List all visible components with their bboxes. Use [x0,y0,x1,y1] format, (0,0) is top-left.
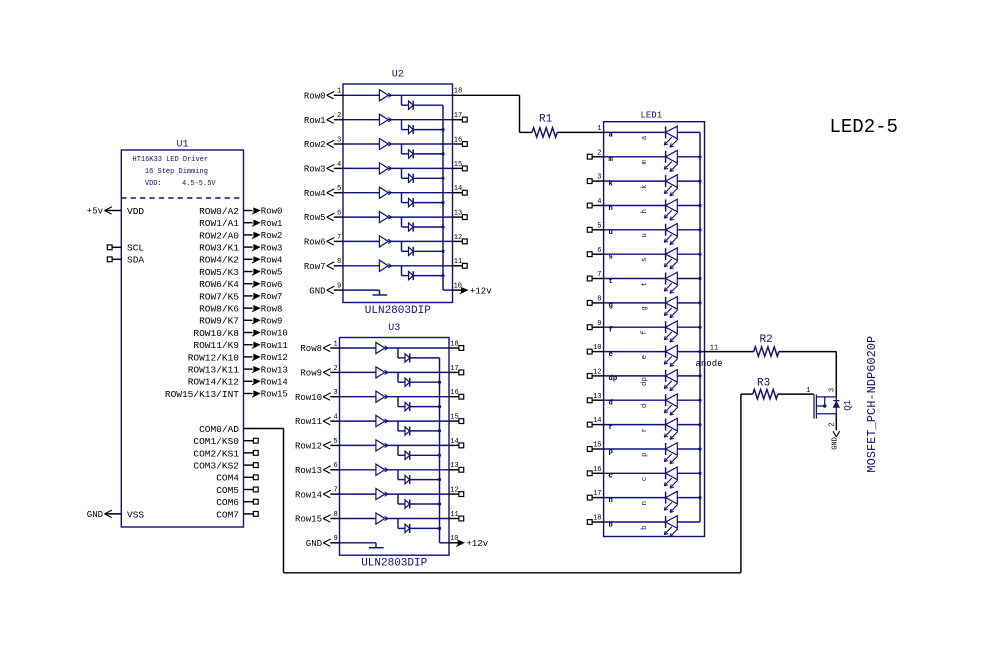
svg-text:12: 12 [454,234,462,242]
junction diode rail U2 ch7 [441,250,444,253]
svg-text:Row6: Row6 [304,238,326,248]
pin ROW3/K1 of U1 [199,243,252,254]
svg-text:VSS: VSS [127,509,144,520]
buffer channel 4 of U3 [340,415,450,426]
LED display LED1 box [604,111,705,537]
wire LED1 pin11 to R2 [705,351,754,353]
buffer channel 8 of U3 [340,513,450,524]
svg-text:ROW4/K2: ROW4/K2 [199,255,239,266]
node Row15 [252,390,288,400]
svg-text:Row14: Row14 [295,490,322,500]
resistor R2 [754,334,779,356]
node Row8 [252,304,282,314]
svg-text:f: f [641,331,649,335]
junction diode rail U3 ch2 [438,381,441,384]
pin ROW12/K10 of U1 [188,352,253,363]
pin 16 of U3 [449,389,464,399]
svg-text:17: 17 [454,112,462,120]
pin 15 of U3 [449,413,464,423]
svg-text:ROW12/K10: ROW12/K10 [188,352,240,363]
node Row4 [252,256,282,266]
svg-text:VDD: VDD [127,206,144,217]
junction anode rail row 9 [698,326,701,329]
pin 7 of U2, node Row6 [304,234,343,248]
pin SCL of U1 [107,243,144,254]
ground symbol inside U2 [343,290,387,295]
svg-text:ROW5/K3: ROW5/K3 [199,267,239,278]
junction anode rail row 7 [698,277,701,280]
pin 11 of U2 [453,258,468,268]
pin 18 of U2 [454,88,462,96]
pin 10 +12v of U2 [453,283,493,297]
buffer channel 7 of U3 [340,489,450,500]
node Row13 [252,365,288,375]
pin 6 of U2, node Row5 [304,210,343,224]
svg-text:16: 16 [450,389,458,397]
pin 4 of U2, node Row3 [304,161,343,175]
junction diode rail U3 ch7 [438,502,441,505]
ground GND at Q1 source [832,431,840,450]
junction anode rail row 12 [698,374,701,377]
svg-text:b: b [641,525,649,529]
svg-text:ROW0/A2: ROW0/A2 [199,206,239,217]
svg-text:e: e [641,355,649,359]
node Row3 [252,243,282,253]
svg-text:Row12: Row12 [295,442,322,452]
diode D3 of U2 [402,144,444,158]
svg-text:Row4: Row4 [261,256,283,266]
svg-text:2: 2 [337,112,341,120]
LED segment a (pin 1) of LED1 [597,125,700,147]
diode common rail of U3 [440,358,450,543]
label Q1 [843,400,853,411]
svg-text:R3: R3 [757,378,770,390]
svg-text:15: 15 [450,413,458,421]
svg-text:3: 3 [829,388,837,392]
junction anode rail row 17 [698,496,701,499]
buffer channel 2 of U2 [343,114,453,125]
diode D3 of U3 [398,397,440,411]
buffer channel 6 of U3 [340,464,450,475]
junction anode rail row 10 [698,350,701,353]
svg-text:15: 15 [454,161,462,169]
U1 dashed separator [121,197,243,199]
buffer channel 1 of U2 [343,90,453,101]
LED segment f (pin 9) of LED1 [587,320,700,342]
diode D6 of U2 [402,217,444,231]
buffer channel 1 of U3 [340,342,450,353]
pin ROW11/K9 of U1 [193,340,252,351]
svg-text:Row5: Row5 [304,213,326,223]
svg-text:COM7: COM7 [216,509,239,520]
svg-text:d: d [641,404,649,408]
LED segment s (pin 6) of LED1 [587,247,700,269]
buffer channel 8 of U2 [343,260,453,271]
buffer channel 3 of U2 [343,138,453,149]
pin ROW13/K11 of U1 [188,365,253,376]
svg-text:Row14: Row14 [261,378,288,388]
junction diode rail U3 ch5 [438,454,441,457]
svg-text:c: c [641,477,649,481]
junction anode rail row 14 [698,423,701,426]
svg-text:Row4: Row4 [304,189,326,199]
svg-text:ULN2803DIP: ULN2803DIP [361,558,427,570]
pin ROW5/K3 of U1 [199,267,252,278]
pin 11 of U3 [449,511,464,521]
pin COM0/AD of U1 [199,424,239,435]
value label ULN2803DIP of U3 [361,558,427,570]
diode D1 of U2 [402,95,444,109]
svg-text:Row1: Row1 [304,116,326,126]
svg-text:Row12: Row12 [261,353,288,363]
node Row1 [252,219,282,229]
junction diode rail U2 ch8 [441,274,444,277]
wire COM0/AD net [244,394,753,573]
pin VSS of U1 [127,509,144,520]
junction diode rail U3 ch6 [438,478,441,481]
svg-text:Row5: Row5 [261,268,283,278]
value label HT16K33 LED Driver [133,156,217,188]
transistor Q1 MOSFET P-channel [814,394,839,418]
diode D4 of U2 [402,168,444,182]
svg-text:Row1: Row1 [261,219,283,229]
junction anode rail row 4 [698,204,701,207]
junction anode rail row 5 [698,228,701,231]
pin 12 of U2 [453,234,468,244]
node Row14 [252,378,288,388]
svg-text:Row9: Row9 [300,369,322,379]
svg-text:Row8: Row8 [300,344,322,354]
diode D7 of U3 [398,494,440,508]
junction anode rail row 3 [698,180,701,183]
svg-text:16: 16 [454,136,462,144]
svg-text:3: 3 [333,389,337,397]
svg-text:4: 4 [337,161,341,169]
pin 17 of U2 [453,112,468,122]
svg-text:18: 18 [454,88,462,96]
pin 5 of U3, node Row12 [295,438,340,452]
pin 1 gate label [806,387,810,395]
pin COM5 of U1 [216,485,258,496]
svg-text:LED2-5: LED2-5 [830,116,898,138]
svg-text:Row11: Row11 [295,417,322,427]
pin COM1/KS0 of U1 [193,436,258,447]
svg-text:ROW7/K5: ROW7/K5 [199,291,239,302]
junction anode rail row 16 [698,472,701,475]
pin 8 of U2, node Row7 [304,258,343,272]
junction diode rail U2 ch3 [441,152,444,155]
pin 11 anode of LED1 [696,344,723,369]
wire Q1 source to GND [835,414,837,431]
svg-text:VDD:: VDD: [145,180,162,188]
svg-text:h: h [641,209,649,213]
svg-text:COM0/AD: COM0/AD [199,424,239,435]
pin 13 of U3 [449,462,464,472]
buffer channel 6 of U2 [343,212,453,223]
diode D1 of U3 [398,348,440,362]
pin ROW7/K5 of U1 [199,291,252,302]
ground GND at VSS [87,510,112,520]
wire R2 to Q1 drain [779,352,836,397]
LED segment c (pin 16) of LED1 [587,466,700,488]
svg-text:COM2/KS1: COM2/KS1 [193,448,239,459]
svg-text:Row2: Row2 [261,231,283,241]
pin 10 +12v of U3 [449,535,489,549]
svg-text:r: r [641,428,649,432]
pin SDA of U1 [107,255,144,266]
svg-text:k: k [641,184,649,189]
pin 2 of U2, node Row1 [304,112,343,126]
svg-text:16 Step Dimming: 16 Step Dimming [145,168,208,176]
junction anode rail row 6 [698,253,701,256]
diode D4 of U3 [398,421,440,435]
svg-text:ROW9/K7: ROW9/K7 [199,316,239,327]
LED segment e (pin 10) of LED1 [587,344,700,366]
node Row2 [252,231,282,241]
diode D6 of U3 [398,470,440,484]
svg-text:Row13: Row13 [295,466,322,476]
svg-text:Row11: Row11 [261,341,288,351]
pin ROW0/A2 of U1 [199,206,252,217]
junction diode rail U2 ch6 [441,225,444,228]
svg-text:g: g [641,306,649,310]
pin ROW9/K7 of U1 [199,316,252,327]
svg-text:SDA: SDA [127,255,144,266]
svg-text:2: 2 [333,365,337,373]
buffer channel 3 of U3 [340,391,450,402]
pin ROW4/K2 of U1 [199,255,252,266]
svg-text:6: 6 [337,210,341,218]
pin ROW6/K4 of U1 [199,279,252,290]
wire R3 to Q1 gate [778,393,814,395]
LED segment dp (pin 12) of LED1 [587,369,700,391]
LED segment g (pin 8) of LED1 [587,296,700,318]
pin COM2/KS1 of U1 [193,448,258,459]
pin 12 of U3 [449,487,464,497]
pin 13 of U2 [453,210,468,220]
pin ROW15/K13/INT of U1 [165,389,253,400]
svg-text:ROW14/K12: ROW14/K12 [188,377,240,388]
pin ROW10/K8 of U1 [193,328,252,339]
svg-text:9: 9 [337,283,341,291]
pin VDD of U1 [127,206,144,217]
svg-text:Row7: Row7 [304,262,326,272]
svg-text:U3: U3 [388,323,400,334]
value label ULN2803DIP of U2 [365,305,431,317]
svg-text:8: 8 [337,258,341,266]
svg-text:+12v: +12v [467,539,489,549]
junction diode rail U3 ch3 [438,405,441,408]
svg-text:1: 1 [806,387,810,395]
svg-text:anode: anode [696,359,723,369]
pin 1 of U3, node Row8 [300,340,339,354]
pin ROW1/A1 of U1 [199,218,252,229]
svg-text:p: p [641,452,649,456]
pin COM7 of U1 [216,509,258,520]
svg-text:18: 18 [450,340,458,348]
svg-text:COM5: COM5 [216,485,239,496]
LED segment p (pin 15) of LED1 [587,442,700,464]
svg-text:m: m [641,160,649,165]
node +5v [87,207,112,217]
LED segment d (pin 13) of LED1 [587,393,700,415]
svg-text:R2: R2 [760,334,773,346]
svg-text:Row10: Row10 [261,329,288,339]
op-amp U1 HT16K33 LED Driver [121,140,243,528]
pin 17 of U3 [449,365,464,375]
svg-text:+12v: +12v [470,286,492,296]
svg-text:SCL: SCL [127,243,144,254]
svg-text:ROW3/K1: ROW3/K1 [199,243,239,254]
svg-text:COM1/KS0: COM1/KS0 [193,436,239,447]
svg-text:7: 7 [337,234,341,242]
svg-text:Row3: Row3 [304,165,326,175]
svg-text:s: s [641,258,649,262]
svg-text:COM6: COM6 [216,497,239,508]
svg-text:10: 10 [454,283,462,291]
svg-text:Row7: Row7 [261,292,283,302]
LED segment t (pin 7) of LED1 [587,271,700,293]
svg-text:Row0: Row0 [261,207,283,217]
svg-text:4.5-5.5V: 4.5-5.5V [182,180,216,188]
pin 6 of U3, node Row13 [295,462,340,476]
svg-text:14: 14 [450,438,458,446]
pin 8 of U3, node Row15 [295,511,340,525]
resistor R1 [532,113,557,137]
pin ROW2/A0 of U1 [199,230,252,241]
pin ROW8/K6 of U1 [199,304,252,315]
svg-text:+5v: +5v [87,207,104,217]
LED segment h (pin 4) of LED1 [587,198,700,220]
pin 2 source label [829,422,837,426]
junction diode rail U2 ch5 [441,201,444,204]
junction diode rail U3 ch4 [438,429,441,432]
ground symbol inside U3 [340,543,384,548]
pin 9 GND of U3 [306,535,340,549]
svg-text:12: 12 [450,487,458,495]
svg-text:LED1: LED1 [641,111,663,121]
node Row7 [252,292,282,302]
wire GND to VSS [105,513,122,515]
svg-text:a: a [641,135,649,140]
node Row9 [252,317,282,327]
buffer channel 2 of U3 [340,367,450,378]
svg-text:U1: U1 [177,140,189,151]
svg-text:5: 5 [333,438,337,446]
pin 2 of U3, node Row9 [300,365,339,379]
diode D5 of U3 [398,445,440,459]
svg-text:COM4: COM4 [216,473,239,484]
svg-text:u: u [641,233,649,237]
buffer channel 7 of U2 [343,236,453,247]
svg-text:Row0: Row0 [304,92,326,102]
svg-text:Row8: Row8 [261,304,283,314]
svg-text:n: n [641,501,649,505]
junction anode rail row 15 [698,447,701,450]
svg-text:dp: dp [641,377,649,386]
buffer channel 5 of U3 [340,440,450,451]
svg-text:ULN2803DIP: ULN2803DIP [365,305,431,317]
svg-text:ROW1/A1: ROW1/A1 [199,218,239,229]
LED segment m (pin 2) of LED1 [587,149,700,171]
svg-text:11: 11 [450,511,458,519]
svg-text:1: 1 [333,340,337,348]
node Row5 [252,268,282,278]
resistor R3 [753,378,778,399]
svg-text:Row6: Row6 [261,280,283,290]
svg-text:MOSFET_PCH-NDP6020P: MOSFET_PCH-NDP6020P [865,336,879,473]
pin COM4 of U1 [216,473,258,484]
wire +5v to VDD [105,210,122,212]
svg-text:2: 2 [829,422,837,426]
pin COM6 of U1 [216,497,258,508]
svg-text:7: 7 [333,487,337,495]
diode D2 of U2 [402,120,444,134]
svg-text:6: 6 [333,462,337,470]
junction anode rail row 2 [698,155,701,158]
svg-text:Row9: Row9 [261,317,283,327]
diode D2 of U3 [398,372,440,386]
op-amp U2 ULN2803 box [343,70,453,303]
junction diode rail U3 ch8 [438,527,441,530]
diode D8 of U3 [398,519,440,533]
svg-text:14: 14 [454,185,462,193]
LED segment n (pin 17) of LED1 [587,490,700,512]
LED segment k (pin 3) of LED1 [587,174,700,196]
pin 3 of U2, node Row2 [304,136,343,150]
pin 3 of U3, node Row10 [295,389,340,403]
svg-text:ROW6/K4: ROW6/K4 [199,279,239,290]
svg-text:ROW2/A0: ROW2/A0 [199,230,239,241]
svg-text:13: 13 [450,462,458,470]
anode rail of LED1 [699,132,701,522]
wire U2 pin18 to R1 [453,95,533,132]
svg-text:HT16K33 LED Driver: HT16K33 LED Driver [133,156,209,164]
node Row10 [252,329,288,339]
svg-text:4: 4 [333,413,337,421]
diode common rail of U2 [443,105,453,290]
pin ROW14/K12 of U1 [188,377,253,388]
junction diode rail U2 ch4 [441,177,444,180]
svg-text:GND: GND [309,286,325,296]
node Row0 [252,207,282,217]
node Row11 [252,341,288,351]
buffer channel 5 of U2 [343,187,453,198]
svg-text:3: 3 [337,136,341,144]
svg-text:GND: GND [832,437,840,450]
LED segment b (pin 18) of LED1 [587,515,700,537]
junction anode rail row 13 [698,399,701,402]
LED segment u (pin 5) of LED1 [587,222,700,244]
junction anode rail row 8 [698,301,701,304]
pin 7 of U3, node Row14 [295,487,340,501]
svg-text:Row15: Row15 [295,515,322,525]
svg-text:U2: U2 [392,70,404,81]
svg-text:t: t [641,282,649,286]
svg-text:11: 11 [454,258,462,266]
value label MOSFET_PCH-NDP6020P [865,336,879,473]
pin 9 GND of U2 [309,283,343,297]
svg-text:GND: GND [87,510,103,520]
svg-text:Row3: Row3 [261,243,283,253]
title LED2-5 [830,116,898,138]
diode D7 of U2 [402,241,444,255]
svg-text:COM3/KS2: COM3/KS2 [193,461,239,472]
svg-text:8: 8 [333,511,337,519]
pin 3 drain label [829,388,837,392]
pin 18 of U3 [449,340,464,350]
svg-text:Row2: Row2 [304,140,326,150]
